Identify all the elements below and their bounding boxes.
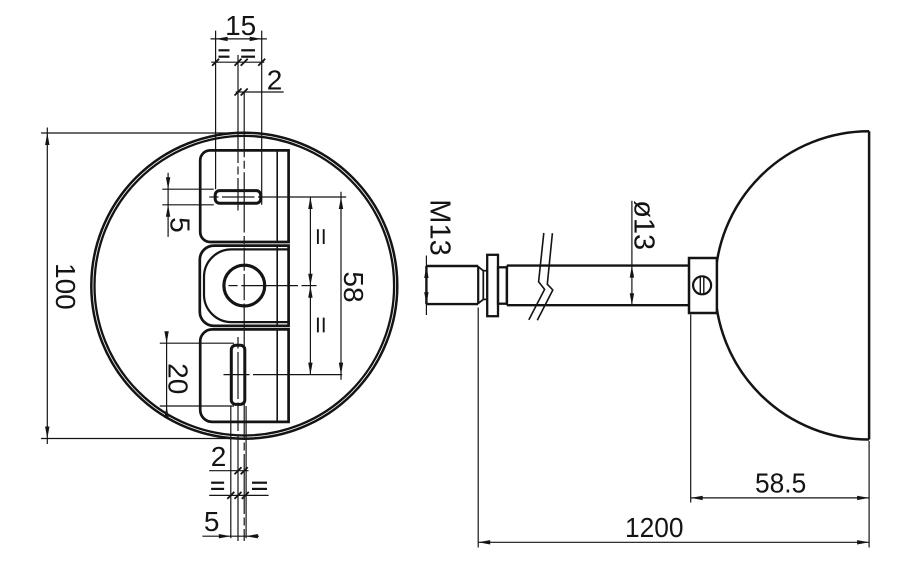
break line left [529, 233, 545, 320]
extension bottom slot right [245, 406, 247, 538]
arrows 15 [216, 37, 228, 41]
extension line 15 left [215, 31, 217, 190]
extension line 15 right [261, 31, 263, 205]
dim line M13 (vertical at rod end) [425, 256, 427, 316]
svg-text:5: 5 [204, 506, 220, 537]
dim line 5 bottom [202, 535, 259, 537]
arrows 5 bottom (outside pointing in) [219, 534, 231, 538]
svg-text:1200: 1200 [625, 511, 684, 543]
dome right edge [868, 131, 871, 439]
dim line o13 [631, 201, 633, 305]
extension line 100 top [41, 132, 244, 134]
58 equal marks (vertical bars) [317, 229, 319, 244]
disc outer circle [91, 133, 397, 439]
svg-text:2: 2 [267, 65, 283, 96]
hub inner contour [204, 249, 289, 322]
arrows 20 (outside pointing in) [164, 331, 168, 343]
neck bottom line [483, 298, 487, 300]
svg-text:20: 20 [163, 363, 194, 394]
neck chamfer bottom [479, 299, 484, 303]
svg-text:100: 100 [50, 263, 81, 310]
arrows 1200 [478, 540, 490, 544]
svg-text:58.5: 58.5 [755, 467, 806, 499]
thread shoulder [477, 266, 479, 304]
arrows 58 inner [308, 197, 312, 209]
washer [487, 255, 498, 316]
fold line bottom clip [276, 329, 278, 422]
dim line 58 outer [340, 192, 342, 380]
dim line 2 bottom [209, 470, 248, 472]
hole o13 [224, 265, 265, 306]
rod end face [506, 266, 508, 306]
ticks 2 bottom [235, 467, 242, 474]
hub outer [200, 246, 289, 326]
threaded stub [426, 265, 478, 267]
svg-text:2: 2 [211, 441, 227, 472]
extension 5 bottom [162, 204, 214, 206]
arrows 5 top-left (outside pointing in) [166, 177, 170, 189]
neck top line [483, 270, 487, 272]
fold line top clip [276, 150, 278, 242]
bottom area [211, 482, 224, 484]
arrows 58 outer [339, 197, 343, 209]
arrows o13 [630, 266, 634, 278]
centerline top slot vertical [237, 55, 239, 211]
extension 1200 left [477, 308, 479, 548]
top clip [200, 150, 288, 242]
svg-text:15: 15 [225, 10, 256, 41]
svg-text:5: 5 [165, 217, 196, 233]
dim line 100 [46, 128, 48, 445]
screw slot lines [699, 277, 701, 294]
equality line top [211, 61, 264, 63]
svg-text:58: 58 [338, 271, 369, 302]
extension line 100 bottom [41, 438, 248, 440]
extension bottom slot left [230, 406, 232, 538]
dim line 58.5 [691, 497, 869, 499]
break line right [537, 233, 553, 320]
rod main [507, 264, 689, 266]
hub block (covers dome arc) [689, 258, 717, 313]
arrows M13 [424, 266, 428, 278]
extension 20 bottom [160, 405, 234, 407]
centerline bottom slot horizontal / 58 bottom extension [224, 374, 343, 376]
dim line 2 top [236, 91, 284, 93]
dim line 15 [211, 38, 267, 40]
extension 5 top [162, 188, 214, 190]
arrows 58.5 [691, 496, 703, 500]
dome arc [715, 131, 869, 439]
dim line 1200 [478, 541, 869, 543]
svg-text:M13: M13 [423, 199, 455, 255]
centerline bottom slot vertical [237, 337, 239, 541]
extension 20 top [160, 342, 234, 344]
neck end face [482, 271, 484, 300]
dim line 20 [166, 337, 168, 412]
neck chamfer top [479, 267, 484, 271]
ticks equality line top [212, 59, 219, 66]
collar [498, 267, 507, 303]
dim line 5 top-left [167, 173, 169, 237]
top area [219, 49, 230, 51]
slot 15x5 in top clip [215, 191, 261, 204]
centerline top slot horizontal / 58 top extension [209, 196, 346, 198]
equality line bottom [209, 494, 268, 496]
extension dome right [868, 441, 870, 548]
screw head [693, 276, 711, 294]
arrows 100 [45, 133, 49, 145]
svg-text:ø13: ø13 [628, 200, 660, 250]
slot 5x20 in bottom clip [231, 345, 245, 404]
dim line 58 inner halves [309, 197, 311, 375]
bottom clip [200, 329, 288, 422]
centerline disc vertical [243, 92, 245, 541]
disc inner rim circle [95, 136, 395, 436]
ticks equality line bottom [227, 492, 234, 499]
ticks 2 top [235, 89, 242, 96]
centerline disc horizontal [229, 285, 317, 287]
extension 58.5 left [690, 315, 692, 503]
fold line hub [276, 246, 278, 326]
